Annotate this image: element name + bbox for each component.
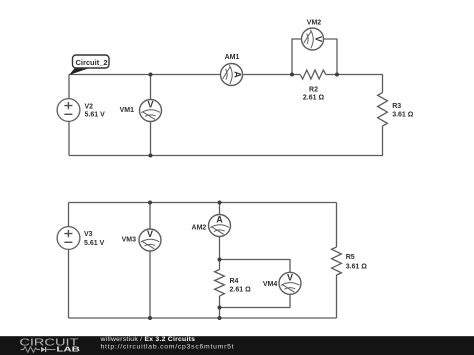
label R2 value xyxy=(303,87,325,102)
svg-text:R4: R4 xyxy=(230,278,239,285)
label R3 value xyxy=(392,103,414,119)
svg-text:V: V xyxy=(287,272,293,282)
label V3 value xyxy=(84,231,105,247)
footer credit text xyxy=(100,336,235,350)
voltmeter VM3 xyxy=(139,229,161,251)
svg-text:V3: V3 xyxy=(84,231,93,238)
svg-text:R2: R2 xyxy=(309,87,318,94)
svg-text:VM1: VM1 xyxy=(120,107,135,114)
svg-text:AM2: AM2 xyxy=(192,224,207,231)
ammeter AM1 xyxy=(221,64,243,86)
node: junction VM3 bottom xyxy=(148,316,152,320)
wire: circuit1 left edge xyxy=(68,75,70,156)
node: junction R2 left xyxy=(290,73,294,77)
svg-text:R5: R5 xyxy=(346,254,355,261)
resistor R5 xyxy=(332,247,342,275)
footer bar xyxy=(0,336,474,355)
label R4 value xyxy=(230,278,252,294)
svg-text:VM4: VM4 xyxy=(263,281,278,288)
svg-text:Circuit_2: Circuit_2 xyxy=(75,58,107,67)
node: junction R2 right xyxy=(335,73,339,77)
wire: VM2 parallel loop xyxy=(292,39,337,75)
voltage source V2 xyxy=(57,99,80,122)
label R5 value xyxy=(346,254,368,271)
svg-text:willwerstiuk / Ex 3.2 Circuits: willwerstiuk / Ex 3.2 Circuits xyxy=(100,336,196,343)
wire: VM1 branch xyxy=(150,75,152,156)
svg-text:VM3: VM3 xyxy=(122,237,137,244)
resistor R3 xyxy=(378,93,388,127)
ammeter AM2 xyxy=(209,215,231,237)
voltmeter VM4 xyxy=(279,272,301,294)
resistor R2 xyxy=(300,70,326,79)
wire: circuit1 right edge xyxy=(382,75,384,93)
wire: circuit2 bottom rail xyxy=(69,317,337,319)
svg-text:3.61 Ω: 3.61 Ω xyxy=(392,112,414,119)
node: junction R4/VM4 bottom xyxy=(218,306,222,310)
svg-text:R3: R3 xyxy=(392,103,401,110)
node: junction R4 bottom rail xyxy=(218,316,222,320)
wire: circuit2 top rail xyxy=(69,202,337,204)
wire: VM4 parallel loop xyxy=(220,260,291,308)
voltage source V3 xyxy=(57,227,80,250)
svg-text:LAB: LAB xyxy=(56,344,80,353)
wire: circuit1 top rail xyxy=(69,74,383,76)
node: junction VM3 top xyxy=(148,201,152,205)
wire: circuit1 bottom rail xyxy=(69,155,383,157)
svg-text:AM1: AM1 xyxy=(225,54,240,61)
svg-text:V2: V2 xyxy=(85,104,94,111)
svg-text:2.61 Ω: 2.61 Ω xyxy=(230,287,252,294)
wire: circuit2 left edge xyxy=(68,203,70,319)
label V2 value xyxy=(85,104,106,119)
svg-text:http://circuitlab.com/cp3sc6mt: http://circuitlab.com/cp3sc6mtumr5t xyxy=(101,343,235,350)
node: junction VM1 top xyxy=(149,73,153,77)
wire: AM2/R4 branch xyxy=(219,203,221,270)
svg-text:5.61 V: 5.61 V xyxy=(84,240,105,247)
node: junction VM1 bottom xyxy=(149,154,153,158)
svg-text:2.61 Ω: 2.61 Ω xyxy=(303,95,325,102)
voltmeter VM2 xyxy=(302,28,324,50)
voltmeter VM1 xyxy=(140,100,162,122)
svg-text:A: A xyxy=(216,215,223,225)
wire: VM3 branch xyxy=(149,203,151,319)
resistor R4 xyxy=(215,270,225,297)
node: junction AM2 top xyxy=(218,201,222,205)
logo CircuitLab xyxy=(19,337,80,353)
wire: circuit2 right edge xyxy=(336,203,338,248)
svg-text:5.61 V: 5.61 V xyxy=(85,112,106,119)
svg-text:VM2: VM2 xyxy=(307,20,322,27)
label Circuit_2 callout xyxy=(69,55,109,75)
svg-text:V: V xyxy=(314,36,324,42)
svg-text:3.61 Ω: 3.61 Ω xyxy=(346,264,368,271)
svg-text:A: A xyxy=(233,71,243,78)
svg-text:V: V xyxy=(147,100,153,110)
svg-text:V: V xyxy=(147,229,153,239)
node: junction AM2/R4 xyxy=(218,258,222,262)
